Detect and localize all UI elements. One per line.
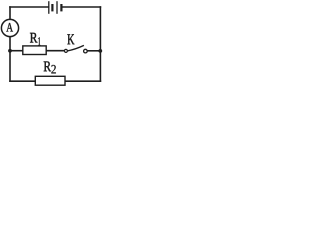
wire left vertical below ammeter bbox=[9, 37, 11, 82]
switch right terminal bbox=[84, 49, 88, 53]
wire switch to right vertical bbox=[87, 50, 100, 52]
resistor R2 bbox=[35, 76, 65, 85]
junction dot left bbox=[8, 49, 12, 53]
wire top-left horizontal bbox=[10, 6, 48, 8]
wire R1 to switch bbox=[46, 50, 64, 52]
resistor R1 bbox=[23, 46, 46, 55]
label R2 bbox=[44, 62, 56, 74]
battery long plate 2 bbox=[56, 1, 58, 14]
wire bottom-left segment bbox=[10, 80, 35, 82]
wire right vertical bbox=[99, 7, 101, 81]
label R1 bbox=[30, 33, 40, 46]
battery long plate 1 bbox=[48, 1, 50, 14]
switch blade bbox=[67, 45, 84, 51]
label K bbox=[67, 34, 74, 44]
junction dot right bbox=[98, 49, 102, 53]
battery GB (two cells) bbox=[49, 1, 62, 14]
battery short plate 2 bbox=[60, 4, 62, 11]
wire top-right horizontal bbox=[61, 6, 100, 8]
wire middle branch left bbox=[10, 50, 23, 52]
switch left terminal bbox=[64, 49, 67, 52]
wire left vertical above ammeter bbox=[9, 7, 11, 19]
ammeter A bbox=[1, 19, 18, 36]
battery short plate 1 bbox=[51, 4, 53, 11]
wire bottom-right segment bbox=[65, 80, 100, 82]
switch K bbox=[64, 45, 87, 52]
